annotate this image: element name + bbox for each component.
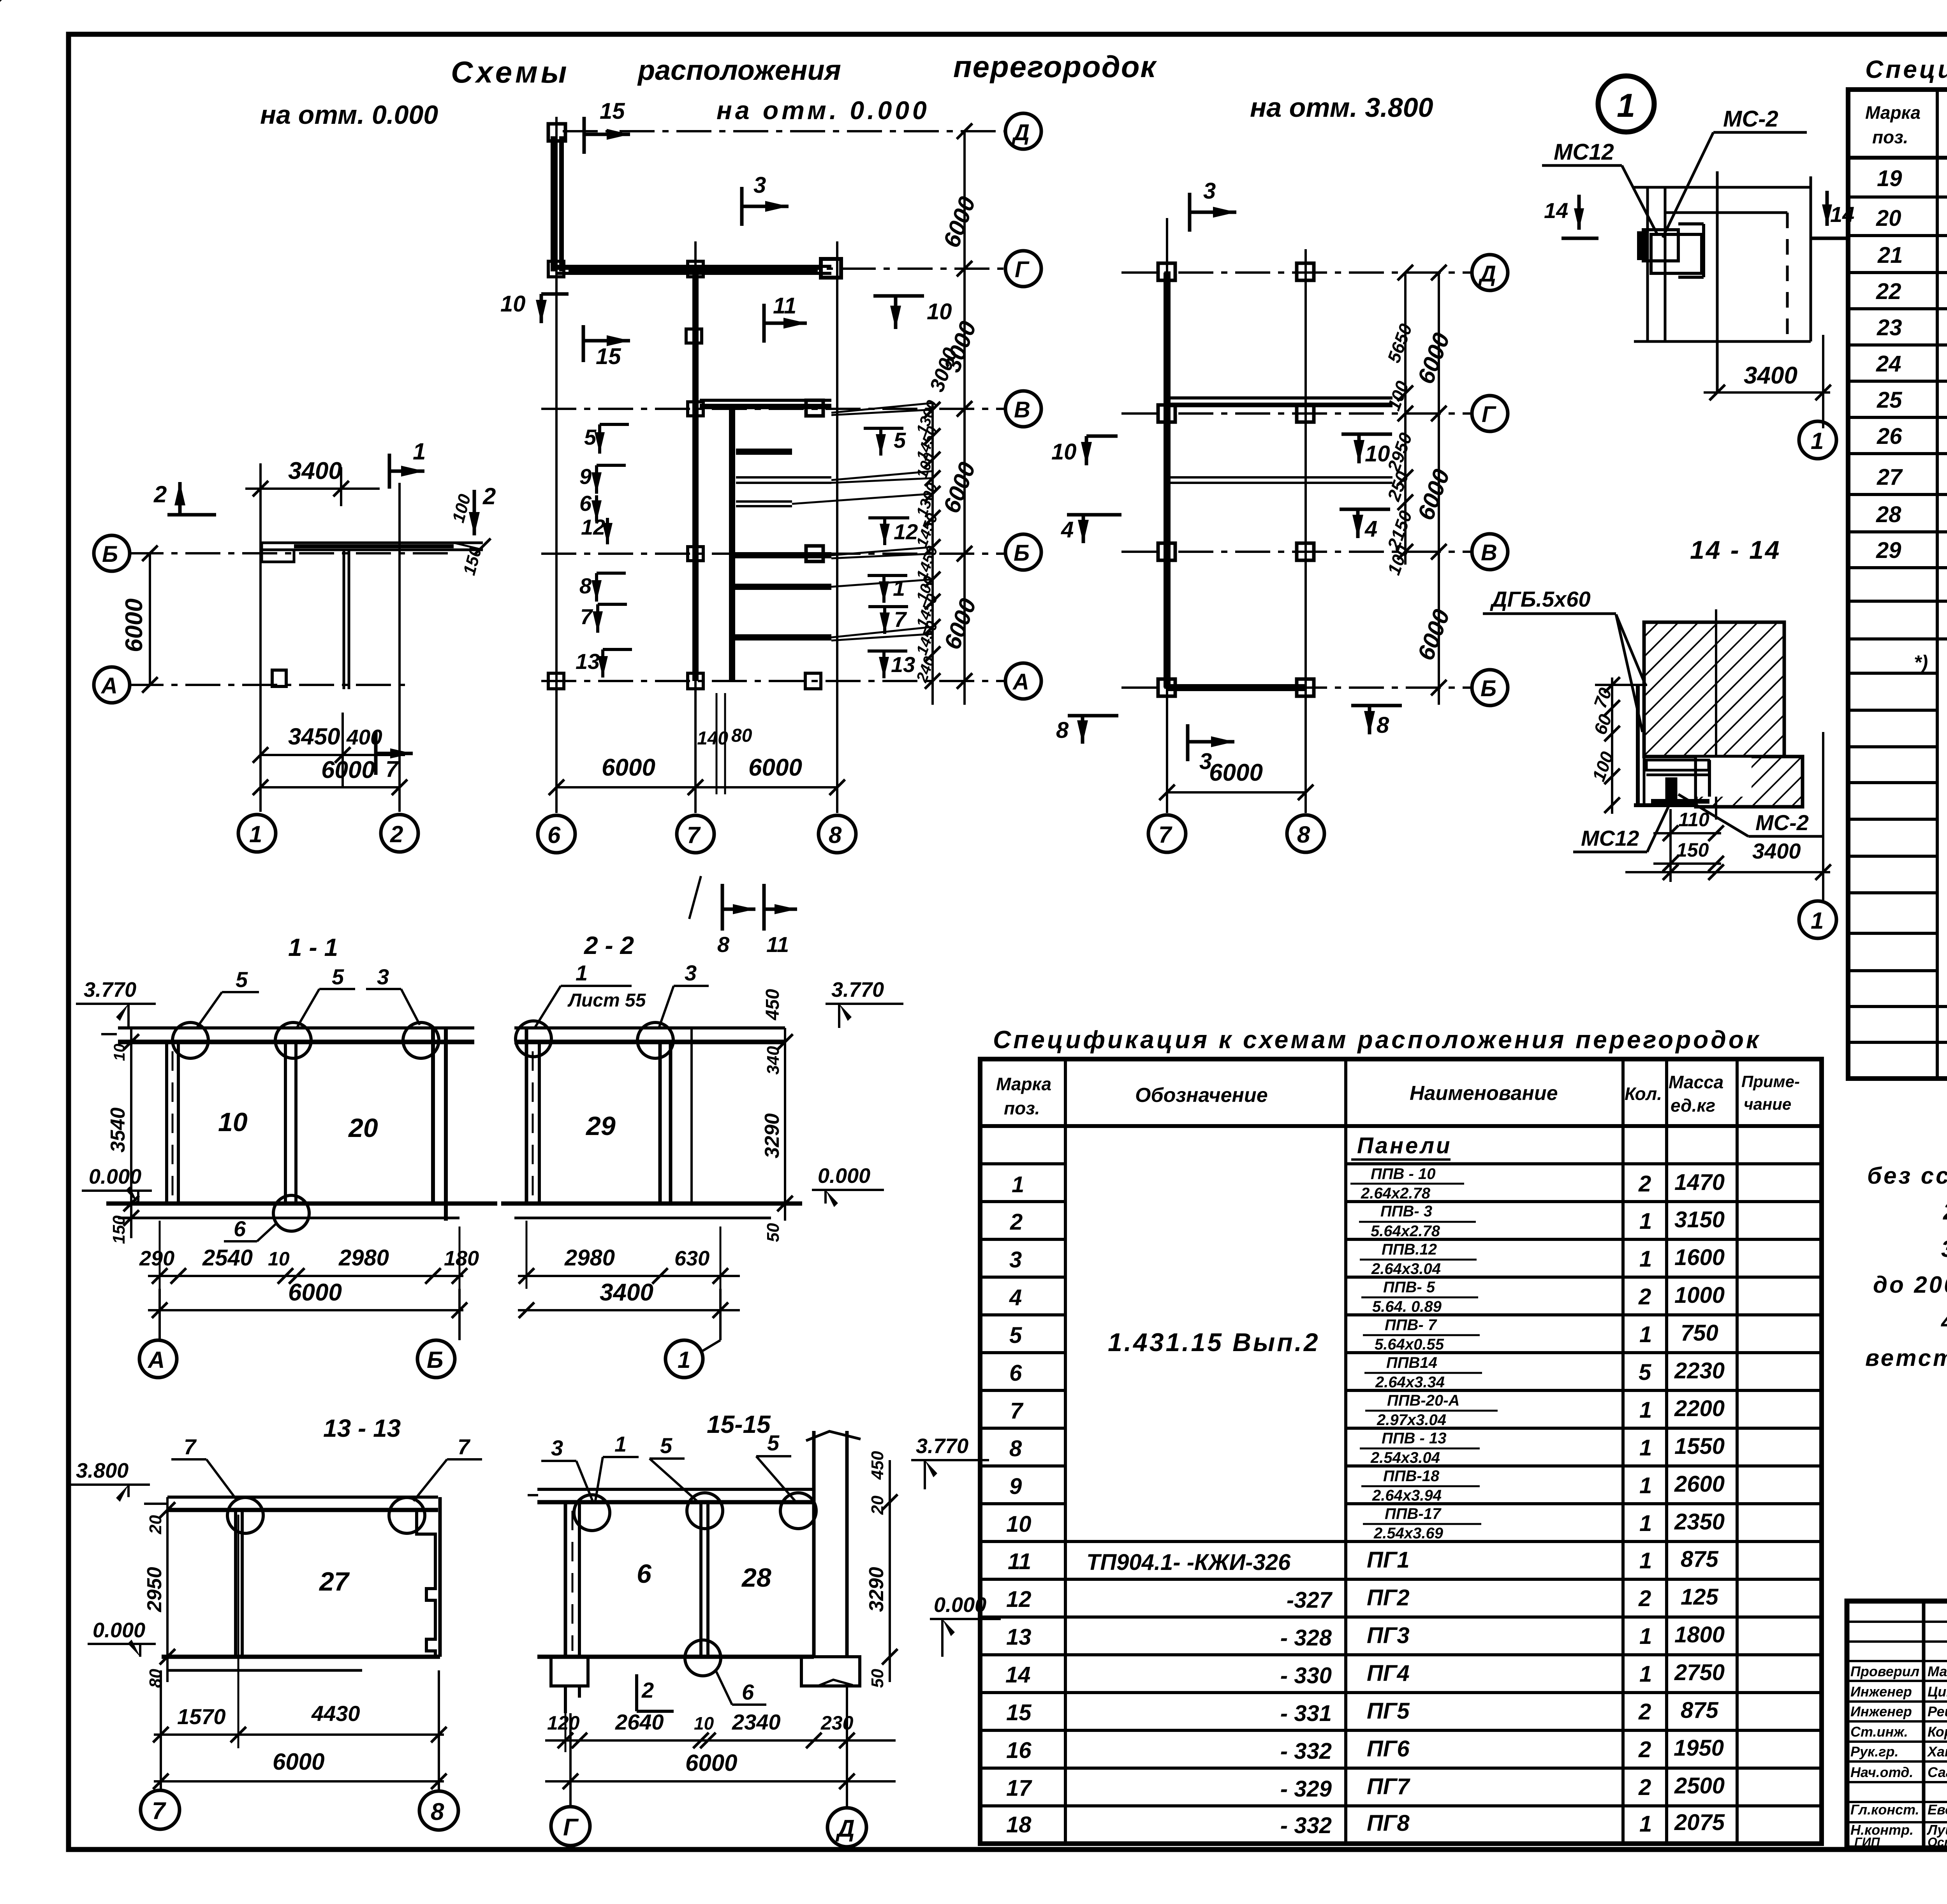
s13 axis circle 7: [141, 1670, 180, 1829]
svg-text:6: 6: [742, 1680, 754, 1704]
plan1 dim 6000 (left vertical): [121, 546, 158, 693]
svg-text:5: 5: [236, 967, 248, 992]
node1 dim 3400: [1704, 335, 1831, 428]
svg-text:13: 13: [1006, 1624, 1032, 1650]
s11 axis circle А: [139, 1289, 177, 1378]
svg-text:1: 1: [1639, 1811, 1652, 1837]
svg-text:3540: 3540: [107, 1107, 129, 1153]
svg-text:Остановский: Остановский: [1928, 1835, 1947, 1849]
s15 mark 2: [637, 1674, 674, 1711]
svg-text:А: А: [1012, 669, 1029, 695]
svg-text:1: 1: [678, 1347, 690, 1373]
svg-text:Б: Б: [1480, 676, 1496, 701]
svg-text:Проверил: Проверил: [1850, 1663, 1919, 1679]
svg-text:50: 50: [764, 1223, 783, 1242]
svg-text:- 331: - 331: [1280, 1701, 1332, 1726]
node1 label МС-2: [1663, 106, 1807, 238]
svg-text:ПГ1: ПГ1: [1367, 1547, 1410, 1573]
svg-text:875: 875: [1681, 1698, 1719, 1723]
plan2 section flag 11: [764, 293, 807, 343]
plan2 axis circle Б: [1005, 534, 1041, 570]
svg-text:3.770: 3.770: [84, 978, 136, 1001]
svg-text:7: 7: [894, 607, 907, 632]
svg-text:6: 6: [234, 1216, 246, 1241]
svg-text:20: 20: [1876, 206, 1901, 231]
plan2 columns at А: [548, 673, 821, 689]
svg-text:3: 3: [1009, 1247, 1022, 1272]
plan1 wall thin extension right of grid2: [454, 538, 491, 554]
svg-text:11: 11: [766, 932, 789, 957]
plan3 axis circle Д: [1472, 255, 1508, 290]
svg-text:20: 20: [868, 1496, 887, 1515]
svg-text:Спецификация к схемам распол: Спецификация к схемам расположения перег…: [993, 1026, 1761, 1054]
s15 bottom circle: [685, 1640, 721, 1676]
s15 ceiling beam: [528, 1489, 814, 1502]
plan1 section flag 7 (bottom): [376, 732, 413, 782]
s11 axis circle Б: [417, 1289, 459, 1378]
plan3 axis circle Б: [1472, 670, 1508, 706]
node1 label МС12: [1542, 139, 1657, 234]
svg-text:МС-2: МС-2: [1755, 810, 1809, 835]
svg-text:2: 2: [153, 481, 167, 507]
svg-text:450: 450: [762, 989, 783, 1021]
svg-text:Цимбалист: Цимбалист: [1928, 1684, 1947, 1700]
s14 connector parts: [1697, 758, 1752, 797]
s11 bottom dim row 290 2540 10 2980 180: [139, 1221, 479, 1289]
plan1 column mark: [272, 670, 286, 686]
plan2 axis line А: [541, 680, 1005, 682]
plan1 section flag 2 (right): [469, 483, 496, 535]
svg-text:7: 7: [580, 604, 593, 629]
s22 callout 1 Лист 55: [535, 961, 646, 1028]
plan3 bottom dim 6000: [1159, 759, 1313, 800]
svg-text:25: 25: [1877, 387, 1902, 413]
plan2 axis circle А: [1005, 663, 1041, 699]
s11 middle panel: [285, 1042, 296, 1204]
svg-text:5.64х0.55: 5.64х0.55: [1375, 1336, 1444, 1353]
svg-text:2. Разрезы 3-3 — 12-12 смо: 2. Разрезы 3-3 — 12-12 смотрите на листе…: [1943, 1198, 1947, 1225]
svg-text:ДГБ.5х60: ДГБ.5х60: [1490, 587, 1591, 611]
plan2 bottom dim line 6000 6000: [549, 754, 845, 795]
svg-text:Схемы: Схемы: [451, 55, 570, 89]
svg-text:7: 7: [1010, 1398, 1024, 1424]
s15 big column right with break: [806, 1431, 861, 1657]
svg-text:6000: 6000: [273, 1749, 324, 1775]
plan1 dim 3450/400: [253, 713, 405, 787]
svg-text:Рук.гр.: Рук.гр.: [1850, 1744, 1899, 1760]
plan2 wall vertical 6: Д-Г: [553, 136, 562, 271]
plan3 section flag 3 bottom: [1188, 724, 1234, 774]
svg-text:28: 28: [1876, 502, 1901, 527]
plan2 grid circle 7: [677, 815, 714, 853]
s22 callout circles: [516, 1021, 673, 1058]
plan2 inner dim chain: [913, 398, 941, 705]
svg-text:6000: 6000: [288, 1279, 342, 1306]
svg-text:4. Монтаж панелей перегородо: 4. Монтаж панелей перегородок выполнять …: [1941, 1309, 1947, 1335]
svg-text:- 330: - 330: [1280, 1663, 1332, 1688]
svg-text:10: 10: [268, 1248, 290, 1270]
svg-text:1: 1: [1639, 1322, 1652, 1347]
svg-text:1 - 1: 1 - 1: [288, 933, 338, 961]
svg-text:5: 5: [767, 1431, 780, 1455]
s11 level 0.000: [82, 1165, 152, 1204]
plan2 flags right stack: [864, 428, 918, 678]
svg-text:5: 5: [660, 1433, 672, 1458]
svg-text:Обозначение: Обозначение: [1135, 1084, 1268, 1107]
svg-text:ед.кг: ед.кг: [1671, 1095, 1715, 1116]
svg-text:ветствии с указаниями сер: ветствии с указаниями серии 1.431-15. вы…: [1865, 1345, 1947, 1371]
svg-text:1950: 1950: [1674, 1735, 1724, 1761]
svg-text:Нач.отд.: Нач.отд.: [1850, 1764, 1913, 1780]
s13 leaders 7 7: [171, 1434, 482, 1501]
svg-text:2: 2: [482, 483, 496, 509]
svg-text:1: 1: [576, 961, 588, 985]
svg-text:Лист 55: Лист 55: [567, 990, 646, 1011]
plan3 grid line 8: [1304, 249, 1307, 813]
svg-text:ПГ8: ПГ8: [1367, 1811, 1410, 1836]
svg-text:Спецификация к схемам распол: Спецификация к схемам расположения перег…: [1865, 55, 1947, 83]
plan2 axis line В: [541, 408, 1005, 410]
svg-text:10: 10: [1051, 439, 1077, 465]
plan2 partition y1295: [736, 502, 792, 506]
node1 section mark 14 left: [1544, 195, 1598, 238]
node1 axis circle 1 bottom: [1799, 401, 1836, 459]
svg-text:20: 20: [146, 1515, 165, 1534]
svg-text:13 - 13: 13 - 13: [323, 1414, 401, 1442]
bottom table grid: [980, 1059, 1822, 1844]
svg-text:Инженер: Инженер: [1850, 1684, 1912, 1700]
svg-text:630: 630: [674, 1247, 709, 1270]
svg-text:В: В: [1014, 397, 1030, 422]
svg-text:6000: 6000: [685, 1750, 737, 1776]
svg-text:ППВ.12: ППВ.12: [1382, 1241, 1437, 1258]
svg-text:ППВ - 10: ППВ - 10: [1371, 1165, 1435, 1183]
svg-text:Д: Д: [1011, 120, 1030, 145]
node1 detail drawing: [1634, 171, 1811, 393]
plan2 small squares on grid7: [686, 329, 703, 689]
bottom table fractions rows 1-10: [1350, 1165, 1498, 1542]
s11 left dims 3540 150: [107, 1028, 139, 1244]
svg-text:10: 10: [927, 299, 952, 324]
svg-text:-327: -327: [1287, 1587, 1333, 1613]
plan2 flags left stack 5 9 6 12: [579, 424, 629, 544]
svg-text:7: 7: [687, 822, 701, 848]
plan2 axis line Б: [541, 553, 1005, 555]
svg-text:18: 18: [1006, 1812, 1032, 1837]
plan2 wall vertical x1880: В-А: [729, 409, 735, 681]
svg-text:1: 1: [1811, 908, 1824, 934]
svg-text:до 200 мм пробить по месту: до 200 мм пробить по месту.: [1873, 1272, 1947, 1298]
svg-text:2200: 2200: [1674, 1396, 1725, 1421]
s11 callout circle bottom: [273, 1195, 309, 1231]
plan2 bottom section flags 8 11: [689, 876, 797, 957]
svg-text:20: 20: [348, 1113, 378, 1143]
svg-text:27: 27: [319, 1567, 350, 1596]
plan1 axis circle А: [94, 667, 130, 703]
svg-text:ППВ- 5: ППВ- 5: [1383, 1279, 1435, 1296]
svg-text:3.800: 3.800: [76, 1459, 129, 1482]
svg-text:3450: 3450: [288, 723, 340, 750]
s15 left panel: [565, 1502, 579, 1657]
svg-text:Б: Б: [102, 542, 118, 567]
svg-text:150: 150: [109, 1215, 129, 1244]
svg-text:6: 6: [1009, 1360, 1022, 1386]
svg-text:0.000: 0.000: [934, 1593, 986, 1617]
plan2 wall y1507: [732, 584, 831, 590]
svg-text:23: 23: [1877, 315, 1902, 340]
svg-text:2: 2: [390, 821, 403, 847]
svg-text:ПГ4: ПГ4: [1367, 1661, 1410, 1686]
s14 label МС12 bottom: [1573, 802, 1671, 852]
plan2 grid line 6: [555, 117, 558, 813]
svg-text:2350: 2350: [1674, 1509, 1725, 1534]
svg-text:9: 9: [579, 464, 591, 489]
svg-text:8: 8: [1056, 718, 1069, 743]
svg-text:2640: 2640: [615, 1710, 664, 1734]
svg-text:- 332: - 332: [1280, 1739, 1332, 1764]
s13 right stepped wall: [417, 1497, 440, 1657]
s14 bottom dim line: [1625, 864, 1831, 880]
s15 callout circles: [574, 1493, 816, 1531]
plan1 grid line 2: [398, 483, 401, 812]
svg-text:- 332: - 332: [1280, 1813, 1332, 1838]
bottom table header texts: [996, 1072, 1800, 1118]
svg-text:3150: 3150: [1674, 1207, 1725, 1232]
svg-text:7: 7: [152, 1798, 166, 1825]
plan1 rotated small dims 150,100 right end: [449, 492, 485, 577]
svg-text:на отм. 0.000: на отм. 0.000: [716, 96, 930, 125]
svg-text:на отм. 0.000: на отм. 0.000: [260, 100, 438, 130]
svg-text:1: 1: [893, 576, 905, 600]
plan2 section flag 10 (right of Г): [873, 296, 952, 329]
svg-text:А: А: [147, 1347, 165, 1373]
s15 floor: [537, 1655, 814, 1659]
plan1 section flag 2 (left): [153, 481, 216, 515]
plan3 wall vertical 7: Д-Б: [1164, 273, 1171, 688]
svg-text:поз.: поз.: [1004, 1098, 1040, 1118]
plan1 axis line Б: [129, 552, 448, 554]
s15 dim 6000: [545, 1750, 896, 1789]
plan3 flag 10: [1341, 434, 1392, 466]
svg-text:14: 14: [1830, 202, 1854, 227]
s15 middle panel: [701, 1502, 708, 1657]
s15 footing right: [801, 1657, 860, 1686]
s22 callout 3: [659, 961, 709, 1028]
plan3 axis line Г: [1121, 412, 1472, 415]
s22 left panel: [526, 1028, 539, 1204]
svg-text:ППВ-17: ППВ-17: [1385, 1505, 1442, 1522]
svg-text:2: 2: [1638, 1171, 1651, 1197]
svg-text:ПГ3: ПГ3: [1367, 1623, 1410, 1648]
s15 axis circle Г: [551, 1713, 590, 1846]
svg-text:на отм. 3.800: на отм. 3.800: [1250, 92, 1433, 123]
s15 level 0.000 right: [930, 1593, 1001, 1657]
svg-text:0.000: 0.000: [93, 1619, 145, 1642]
svg-text:3.770: 3.770: [831, 978, 884, 1001]
svg-text:1: 1: [1617, 87, 1635, 124]
s11 floor: [106, 1204, 497, 1218]
svg-text:1570: 1570: [177, 1704, 226, 1729]
plan3 columns: [1158, 263, 1314, 696]
plan2 flags left stack 8 7 13: [576, 573, 632, 677]
s22 right dims 450 3290: [761, 989, 793, 1242]
plan3 outer dim line: [1412, 265, 1455, 705]
svg-text:2: 2: [1638, 1699, 1651, 1725]
svg-text:11: 11: [1008, 1549, 1031, 1574]
plan2 leader lines to right dim chain: [792, 403, 933, 641]
plan2 section flag 15 (left mid): [583, 325, 630, 369]
svg-text:27: 27: [1877, 465, 1903, 490]
s22 axis circle 1: [665, 1289, 720, 1378]
svg-text:4430: 4430: [311, 1701, 360, 1726]
plan1 vertical wall: [344, 549, 349, 689]
svg-text:1600: 1600: [1674, 1245, 1725, 1270]
svg-text:3400: 3400: [1744, 362, 1797, 389]
s13 left panel: [236, 1510, 242, 1657]
svg-text:3290: 3290: [761, 1113, 783, 1158]
s14 axis circle 1: [1799, 732, 1836, 938]
svg-text:120: 120: [547, 1712, 580, 1734]
svg-text:10: 10: [111, 1044, 128, 1061]
svg-text:Кол.: Кол.: [1625, 1084, 1662, 1104]
svg-text:Коротенко: Коротенко: [1928, 1724, 1947, 1740]
svg-text:1800: 1800: [1674, 1622, 1725, 1647]
s15 bottom dims 120 2640 10 2340 230: [545, 1710, 896, 1752]
svg-text:3.770: 3.770: [916, 1434, 968, 1458]
svg-text:перегородок: перегородок: [953, 49, 1157, 84]
svg-text:1470: 1470: [1674, 1170, 1725, 1195]
plan1 dim 3400: [245, 458, 380, 506]
svg-text:Приме-: Приме-: [1741, 1072, 1800, 1091]
plan2 grid line 8: [836, 241, 838, 813]
svg-text:7: 7: [458, 1434, 471, 1459]
svg-text:1: 1: [1639, 1473, 1652, 1498]
svg-text:1: 1: [1639, 1246, 1652, 1272]
svg-text:8: 8: [717, 932, 730, 957]
svg-text:5.64х2.78: 5.64х2.78: [1371, 1223, 1440, 1240]
plan3 grid line 7: [1166, 218, 1168, 813]
plan2 wall along Б: [732, 552, 831, 558]
plan2 axis circle Д: [1005, 113, 1041, 149]
plan2 columns at Г: [548, 259, 841, 278]
svg-text:Д: Д: [835, 1815, 855, 1842]
plan1 corner step at Б/1: [262, 543, 294, 562]
plan2 axis line Д: [563, 130, 1005, 132]
svg-text:4: 4: [1061, 517, 1074, 542]
svg-text:2340: 2340: [732, 1710, 781, 1734]
svg-text:5: 5: [332, 964, 344, 989]
svg-text:8: 8: [431, 1798, 444, 1825]
s13 ceiling beam: [144, 1497, 438, 1510]
s11 callout circles top: [173, 1022, 439, 1058]
svg-text:1: 1: [1639, 1624, 1652, 1649]
svg-text:Г: Г: [1015, 257, 1030, 282]
s22 level 3.770 right: [826, 978, 903, 1028]
svg-text:ППВ-20-А: ППВ-20-А: [1387, 1392, 1459, 1409]
svg-text:0.000: 0.000: [818, 1164, 870, 1188]
plan2 axis circle Г: [1005, 251, 1041, 287]
svg-text:1: 1: [1639, 1511, 1652, 1536]
s14 panel left: [1634, 685, 1698, 805]
s14 label ДГБ.5х60: [1483, 587, 1646, 732]
svg-text:750: 750: [1681, 1320, 1718, 1346]
svg-text:140: 140: [697, 728, 728, 749]
svg-text:3: 3: [753, 172, 766, 198]
svg-text:180: 180: [444, 1247, 479, 1270]
plan1 wall along Б: [262, 543, 483, 550]
node1 section mark 14 right: [1810, 191, 1854, 238]
svg-text:Марка: Марка: [996, 1074, 1051, 1094]
s22 level 0.000 right: [812, 1164, 884, 1207]
svg-text:1: 1: [413, 438, 426, 465]
node1 big circle: [1598, 76, 1654, 132]
svg-text:10: 10: [1006, 1512, 1032, 1537]
svg-text:1: 1: [249, 821, 262, 847]
plan2 grid circle 8: [819, 815, 856, 853]
svg-text:6: 6: [637, 1559, 652, 1589]
stamp rows: role names: [1850, 1663, 1947, 1849]
svg-text:9: 9: [1009, 1474, 1022, 1499]
svg-text:3400: 3400: [600, 1279, 653, 1306]
s22 right wall: [660, 1028, 692, 1204]
svg-text:2540: 2540: [202, 1245, 253, 1271]
s15 level 3.770 right: [911, 1434, 989, 1489]
svg-text:13: 13: [576, 649, 600, 674]
svg-text:Д: Д: [1478, 261, 1496, 287]
plan1 axis line А: [129, 684, 413, 686]
svg-text:26: 26: [1877, 424, 1902, 449]
bottom table Панели: [1351, 1133, 1452, 1160]
s13 level 0.000: [88, 1619, 156, 1657]
svg-text:расположения: расположения: [637, 55, 841, 86]
svg-text:Гл.конст.: Гл.конст.: [1850, 1802, 1919, 1818]
svg-text:Наименование: Наименование: [1410, 1082, 1558, 1105]
svg-text:1: 1: [614, 1432, 627, 1456]
svg-text:ТП904.1- -КЖИ-326: ТП904.1- -КЖИ-326: [1086, 1550, 1291, 1575]
s13 dim 6000: [153, 1749, 447, 1789]
plan2 axis circle В: [1005, 391, 1041, 427]
plan3 flag 8: [1351, 706, 1402, 738]
svg-text:6000: 6000: [1209, 759, 1263, 786]
plan2 column at Д/6: [548, 124, 565, 141]
plan1 grid line 1: [259, 473, 262, 812]
s13 bottom dims 1570 4430: [153, 1515, 447, 1748]
svg-text:6000: 6000: [121, 598, 148, 652]
svg-text:2980: 2980: [564, 1245, 615, 1271]
defs ticks: [0, 0, 8, 8]
svg-text:12: 12: [581, 515, 605, 539]
plan2 grid circle 6: [538, 815, 575, 853]
plan2 grid line 7: [694, 241, 697, 813]
svg-text:- 328: - 328: [1280, 1625, 1332, 1651]
svg-text:7: 7: [184, 1434, 197, 1459]
svg-text:5: 5: [1639, 1360, 1651, 1385]
s22 ceiling beam: [514, 1028, 785, 1042]
s14 left dim chain 70 60 100: [1588, 677, 1647, 814]
plan3 axis line Д: [1121, 271, 1472, 274]
svg-text:Ст.инж.: Ст.инж.: [1850, 1724, 1908, 1740]
svg-text:50: 50: [868, 1669, 887, 1688]
plan3 axis line В: [1121, 551, 1472, 553]
svg-text:2: 2: [1638, 1775, 1651, 1800]
plan3 partition y1233 thin double: [1167, 477, 1392, 483]
s11 leaders 5 5 3: [197, 964, 420, 1028]
svg-text:7: 7: [386, 757, 399, 782]
svg-text:4: 4: [1009, 1285, 1022, 1310]
s13 left dims 2950: [143, 1497, 175, 1688]
plan3 section flag 3 top: [1190, 178, 1236, 232]
plan2 section flag 10 (left): [500, 291, 569, 323]
